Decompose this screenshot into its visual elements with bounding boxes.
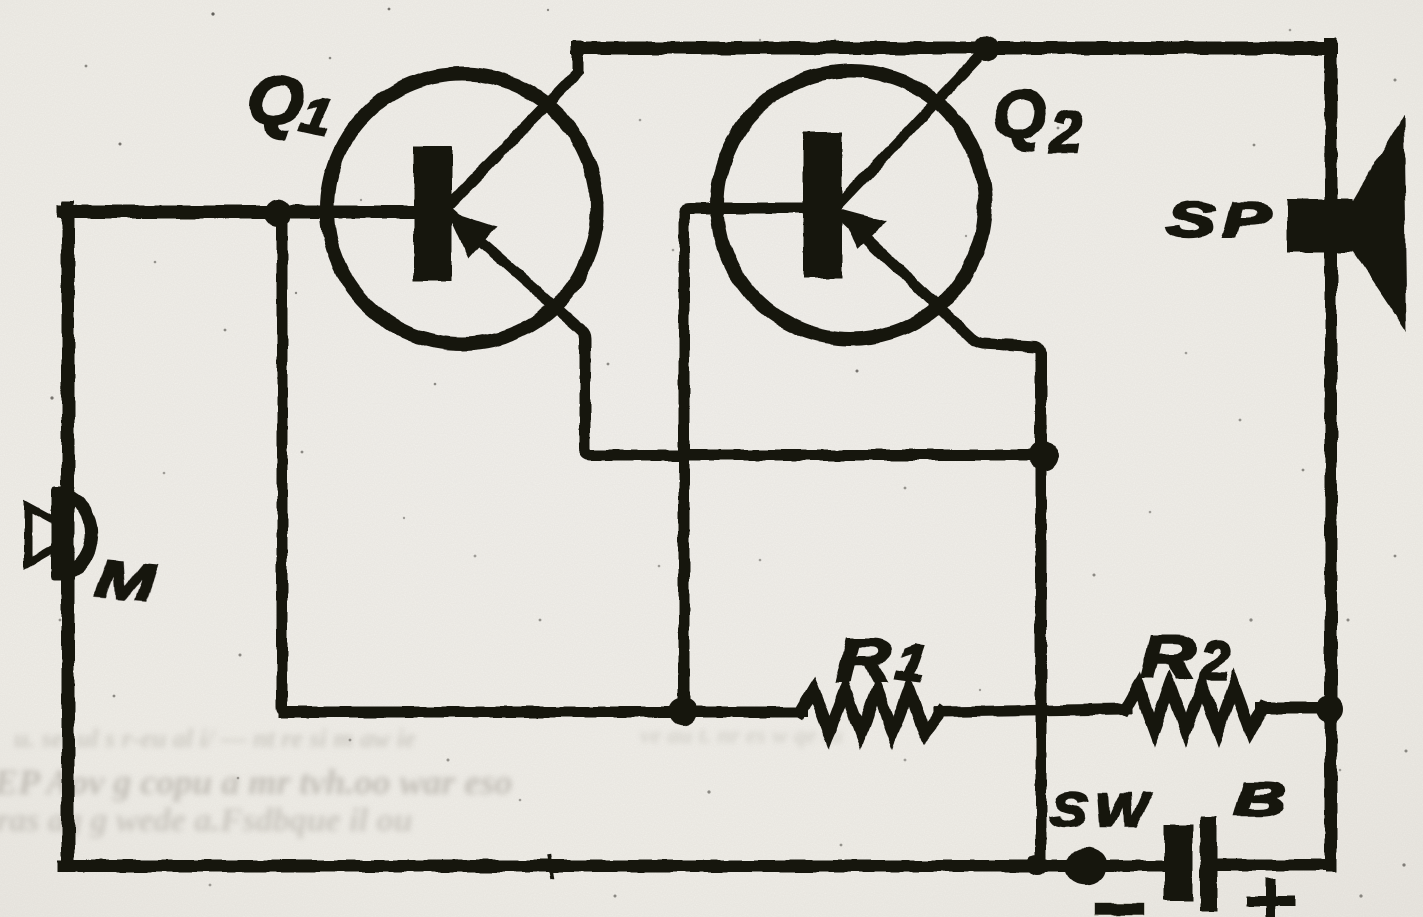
- svg-text:EP Aov g copu a mr tvh.oo: EP Aov g copu a mr tvh.oo war eso: [0, 762, 512, 802]
- wire: left vertical rail (through microphone): [62, 208, 75, 866]
- microphone M horn outline: [28, 507, 52, 563]
- svg-text:ve au t. nr es w qe: ve au t. nr es w qe iu: [640, 723, 843, 749]
- wire: Q2 base left then down, crossing emitter rail: [684, 208, 806, 712]
- node: R1 rail / Q2 base junction dot: [669, 698, 697, 726]
- svg-text:R: R: [1140, 624, 1196, 691]
- battery B negative plate: [1164, 825, 1193, 901]
- transistor Q2 base bar: [803, 132, 842, 278]
- node: R2 / right rail junction dot: [1317, 696, 1343, 722]
- wire: Q1 emitter diagonal, down, then right to node: [452, 216, 1044, 455]
- speaker SP driver rectangle: [1287, 199, 1353, 252]
- wire: drop from Q1 base junction down to R1 rail: [282, 212, 288, 712]
- switch SW contact blob: [1065, 847, 1107, 885]
- wire: switch to battery negative plate: [1102, 861, 1166, 872]
- wire: right vertical rail: [1325, 44, 1337, 866]
- node: Q1 base junction dot: [264, 199, 292, 227]
- wire: bottom rail left section to switch: [63, 860, 1069, 872]
- svg-text:Q: Q: [993, 77, 1046, 153]
- transistor Q1 circle: [327, 74, 597, 344]
- wire: R2 to right rail: [1261, 703, 1331, 714]
- wire: Q2 collector diagonal up to top-rail node: [840, 49, 986, 203]
- wire: battery positive plate to bottom right corner: [1214, 860, 1331, 871]
- microphone M diaphragm arc: [66, 495, 92, 573]
- transistor Q1 emitter arrowhead: [450, 214, 493, 255]
- transistor Q1 base bar: [414, 146, 452, 281]
- svg-text:SP: SP: [1167, 193, 1278, 246]
- resistor R1 zigzag: [800, 690, 941, 733]
- resistor R2 zigzag: [1125, 686, 1263, 730]
- node: emitter rail junction dot: [1029, 441, 1059, 471]
- svg-text:B: B: [1234, 774, 1285, 825]
- svg-text:SW: SW: [1050, 784, 1155, 837]
- label battery minus sign: [1096, 904, 1142, 914]
- wire: horizontal rail from drop corner to R1: [284, 707, 802, 718]
- svg-text:2: 2: [1049, 100, 1082, 165]
- svg-text:2: 2: [1199, 631, 1230, 691]
- label battery plus sign: [1246, 878, 1295, 917]
- bleed-through ghost text (verso of page): [0, 723, 843, 839]
- svg-text:R: R: [836, 627, 892, 694]
- wire: between R1 and R2: [939, 709, 1127, 712]
- transistor Q2 circle: [717, 71, 985, 339]
- wire: top supply rail from Q1 collector corner to right rail: [578, 42, 1331, 55]
- speaker SP cone: [1353, 114, 1407, 332]
- wire: Q1 collector riser and diagonal into base bar: [452, 46, 578, 202]
- wire: Q1 base wire from left rail: [63, 206, 414, 219]
- stray pen tick on bottom rail: [549, 857, 552, 877]
- battery B positive plate: [1200, 816, 1217, 911]
- hand written labels: [94, 58, 1295, 917]
- node: top rail / Q2 collector junction dot: [973, 35, 999, 61]
- node: bottom rail junction dot: [1027, 855, 1047, 875]
- transistor Q2 emitter arrowhead: [842, 211, 883, 246]
- svg-text:M: M: [94, 550, 159, 613]
- wire: Q2 emitter diagonal, jog right, then down to bottom rail: [844, 217, 1041, 866]
- microphone M driver bar: [51, 486, 72, 581]
